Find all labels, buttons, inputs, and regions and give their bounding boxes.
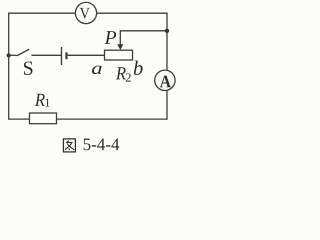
label P — [104, 31, 116, 44]
label a — [92, 66, 102, 74]
label b — [134, 61, 143, 75]
ammeter letter A — [160, 76, 171, 88]
slider arrow head — [117, 44, 123, 50]
label R1 — [35, 94, 50, 107]
wire right side — [166, 13, 168, 120]
label S — [24, 61, 33, 74]
wire battery to rheostat — [67, 54, 105, 56]
wire left side — [8, 13, 10, 120]
resistor R1 body — [30, 113, 57, 124]
voltmeter circle — [75, 2, 96, 23]
wire switch contact to battery — [32, 54, 62, 56]
switch S blade — [17, 49, 29, 56]
node junction on right wire — [165, 29, 169, 33]
wire slider tap to right wire — [120, 31, 167, 46]
wire junction to switch pivot — [9, 54, 18, 56]
wire bottom side — [9, 118, 167, 120]
battery long plate — [61, 47, 63, 65]
label R2 — [116, 67, 131, 81]
caption 5-4-4 — [84, 139, 120, 151]
battery short plate — [65, 52, 67, 59]
wire top side — [9, 12, 167, 14]
caption character tu — [63, 139, 75, 152]
voltmeter letter V — [80, 8, 90, 19]
ammeter circle — [155, 70, 175, 90]
node junction on left wire — [7, 53, 11, 57]
rheostat R2 body — [105, 50, 133, 60]
